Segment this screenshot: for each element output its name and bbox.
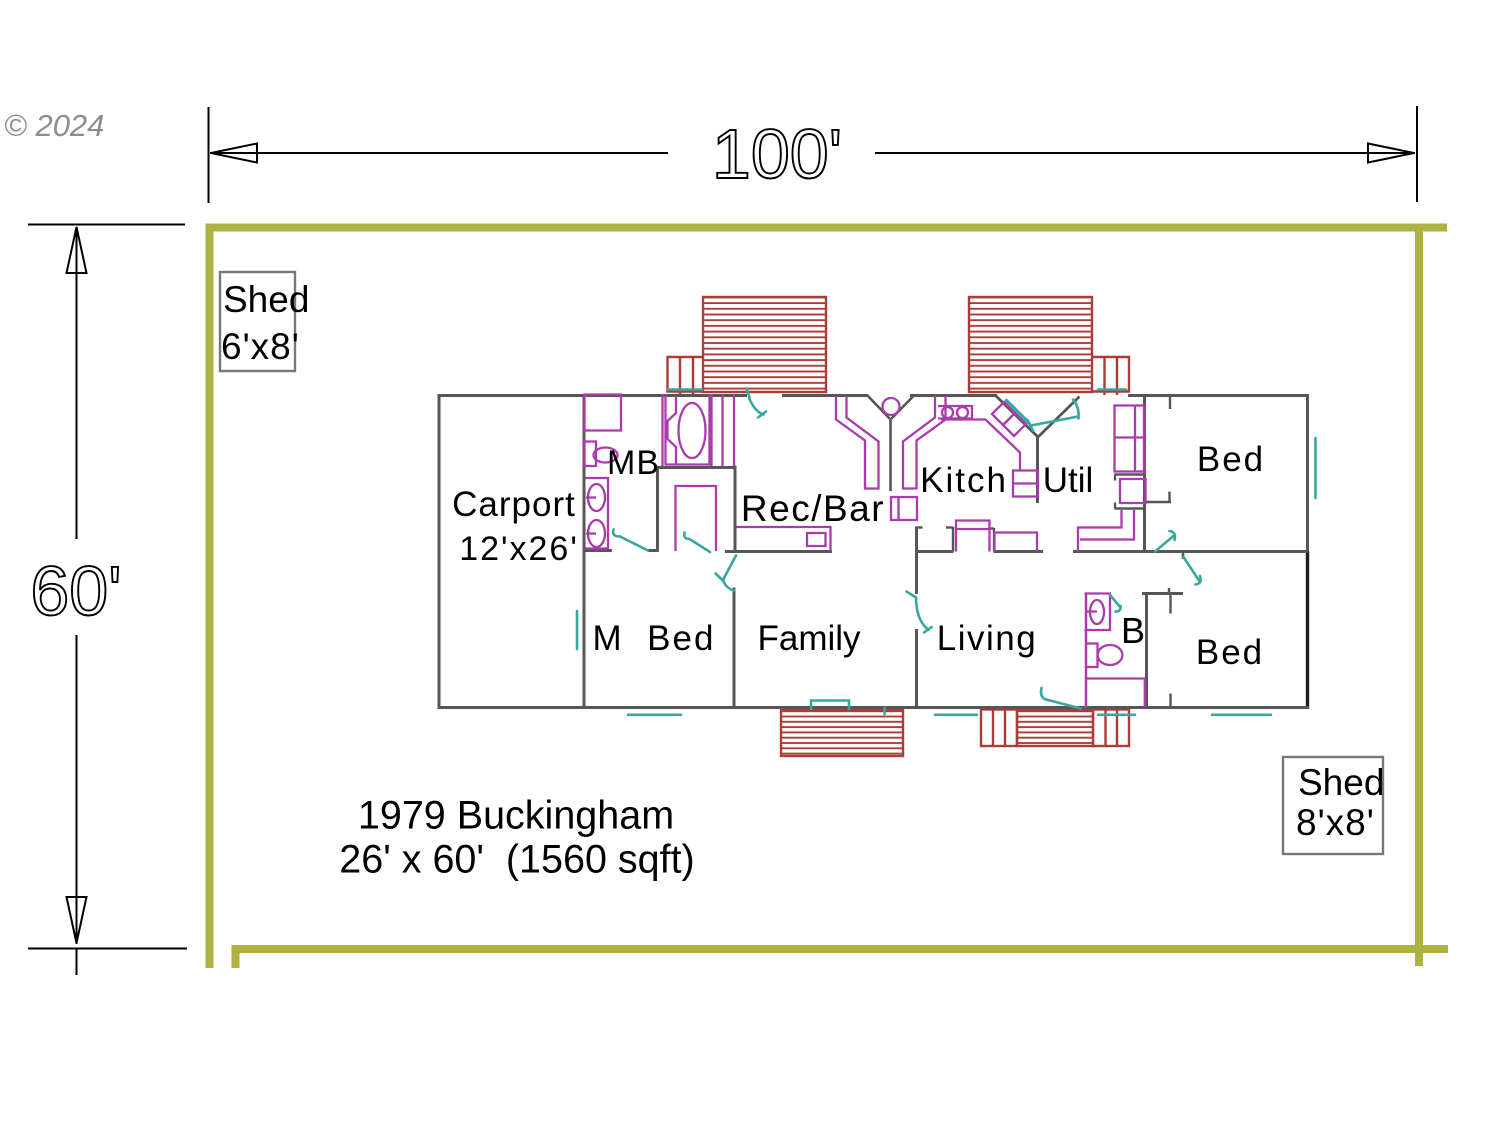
label Util	[1043, 461, 1094, 500]
door swing MB closet	[684, 533, 710, 553]
svg-text:Family: Family	[757, 619, 861, 658]
window marks at top deck steps	[668, 388, 1126, 391]
door swing family	[716, 556, 737, 591]
svg-text:Shed: Shed	[223, 279, 309, 320]
svg-text:Shed: Shed	[1298, 762, 1384, 803]
label Rec/Bar	[741, 488, 885, 529]
dimension extension tick bottom (left)	[28, 948, 187, 950]
top dimension line 100 ft	[210, 152, 1415, 154]
dimension extension tick top (left)	[28, 224, 185, 226]
property boundary bottom fence line	[236, 949, 1449, 968]
wet bar counter right channel	[903, 396, 946, 489]
open arrowhead left	[211, 144, 257, 163]
label M Bed	[593, 619, 716, 658]
dimension extension tick right (top)	[1416, 106, 1418, 202]
bath B left wall	[1085, 594, 1088, 708]
label MB	[607, 444, 660, 482]
wall MB closet / Rec divider	[734, 466, 737, 554]
door swing rec deck	[747, 389, 767, 418]
shed 6x8 box	[220, 272, 309, 371]
label B	[1121, 610, 1145, 651]
hall / bath B top wall	[1142, 588, 1183, 594]
MB garden tub	[663, 394, 710, 466]
mid wall segments y=551	[725, 550, 1308, 553]
open arrowhead down	[67, 897, 87, 943]
wall under tub	[656, 466, 736, 469]
deck bottom-right hatched with steps both sides	[981, 710, 1129, 747]
hall jog wall	[1182, 552, 1185, 560]
watermark copyright 2024	[4, 108, 104, 143]
svg-text:Bed: Bed	[1196, 633, 1264, 672]
left dimension line 60 ft	[76, 227, 78, 975]
bath B sink	[1085, 594, 1111, 631]
svg-text:100': 100'	[712, 115, 842, 193]
carport window tick	[576, 611, 579, 649]
svg-text:26' x 60' (1560 sqft): 26' x 60' (1560 sqft)	[339, 838, 694, 882]
label 100 feet	[712, 115, 842, 193]
bath B toilet	[1086, 644, 1123, 668]
wall carport / master area	[583, 394, 586, 708]
house outer wall right	[1306, 394, 1309, 709]
label 12x26	[459, 530, 579, 568]
kitchen base cabinets	[1013, 471, 1038, 497]
label Kitch	[920, 461, 1008, 500]
door swing living left	[907, 592, 932, 633]
door swing bottom bed	[1155, 531, 1201, 585]
svg-text:Rec/Bar: Rec/Bar	[741, 488, 885, 529]
wall M Bed / Family divider	[733, 588, 736, 709]
MB walk-in closet door frame	[676, 486, 717, 551]
property boundary right line	[1415, 224, 1423, 966]
bed top closet jamb and shelf	[1146, 396, 1171, 502]
open arrowhead right	[1368, 144, 1414, 163]
svg-text:12'x26': 12'x26'	[459, 530, 579, 568]
house outer wall left (carport)	[438, 394, 441, 708]
util washer dryer column	[1115, 406, 1145, 472]
svg-text:Living: Living	[937, 619, 1037, 658]
house outer wall top segments	[438, 394, 1310, 397]
bath B shower	[1085, 679, 1146, 708]
window marks below bottom wall	[628, 713, 1271, 716]
property boundary top line	[206, 224, 1448, 232]
svg-text:1979 Buckingham: 1979 Buckingham	[358, 794, 674, 838]
util appliance nook walls	[1115, 475, 1145, 509]
kitchen sink counter edge	[941, 420, 1020, 471]
steps right of top-right deck	[1092, 357, 1129, 395]
property boundary left line	[206, 224, 214, 968]
deck top-left hatched	[703, 297, 826, 392]
util right wall	[1143, 396, 1146, 552]
svg-text:M Bed: M Bed	[593, 619, 716, 658]
family window bay above deck	[811, 701, 849, 710]
deck top-right hatched	[969, 297, 1092, 392]
kitchen bar chairs	[956, 521, 1037, 552]
svg-text:Carport: Carport	[452, 485, 576, 524]
title line 1	[358, 794, 674, 838]
wall MB bath bottom	[583, 549, 659, 552]
label Bed bottom	[1196, 633, 1264, 672]
svg-text:Util: Util	[1043, 461, 1094, 500]
svg-text:6'x8': 6'x8'	[221, 326, 300, 367]
label Bed top	[1197, 440, 1265, 479]
svg-text:60': 60'	[30, 552, 121, 630]
MB closet top-left	[585, 395, 622, 431]
teal tick near deck	[883, 708, 886, 714]
label Living	[937, 619, 1037, 658]
util nook appliance	[1120, 479, 1146, 503]
wet bar V wall with stem	[867, 395, 915, 491]
open arrowhead up	[67, 227, 87, 273]
living room left wall	[917, 527, 923, 709]
wet bar sink circle	[883, 398, 900, 415]
svg-text:MB: MB	[607, 444, 660, 482]
title line 2	[339, 838, 694, 882]
door swing kitchen deck	[1027, 400, 1079, 431]
door swing living bottom	[1041, 688, 1081, 709]
MB twin toilets	[586, 478, 609, 549]
wet bar cabinet box	[891, 497, 917, 520]
svg-text:8'x8': 8'x8'	[1296, 802, 1375, 843]
dimension extension tick left (top)	[208, 107, 210, 203]
rec bar long counter	[737, 527, 831, 552]
svg-text:Bed: Bed	[1197, 440, 1265, 479]
steps left of top deck	[668, 357, 704, 395]
label Carport	[452, 485, 576, 524]
door swing MB	[613, 530, 648, 551]
deck bottom-middle hatched	[781, 710, 903, 756]
label 60 feet	[30, 552, 121, 630]
svg-text:B: B	[1121, 610, 1145, 651]
stove window diagonal	[1007, 401, 1030, 424]
house outer wall bottom	[438, 706, 1310, 709]
kitchen sink basins	[938, 406, 972, 419]
MB shower linen lines	[712, 394, 735, 466]
kitchen nook diagonal walls	[996, 396, 1080, 437]
util L counter	[1078, 510, 1134, 552]
bottom bed closet walls	[1147, 594, 1171, 709]
wet bar counter left channel	[836, 396, 879, 489]
wall MB closet left	[656, 468, 659, 552]
svg-text:Kitch: Kitch	[920, 461, 1008, 500]
kitchen right wall	[1036, 436, 1039, 503]
door swing bath B	[1110, 595, 1121, 612]
pass-through jambs	[946, 527, 994, 552]
bed window tick right wall	[1314, 438, 1317, 498]
svg-text:© 2024: © 2024	[4, 108, 104, 143]
shed 8x8 box	[1283, 757, 1384, 854]
MB lavatory sink	[585, 442, 618, 467]
kitchen stove on diagonal	[992, 402, 1026, 436]
label Family	[757, 619, 861, 658]
